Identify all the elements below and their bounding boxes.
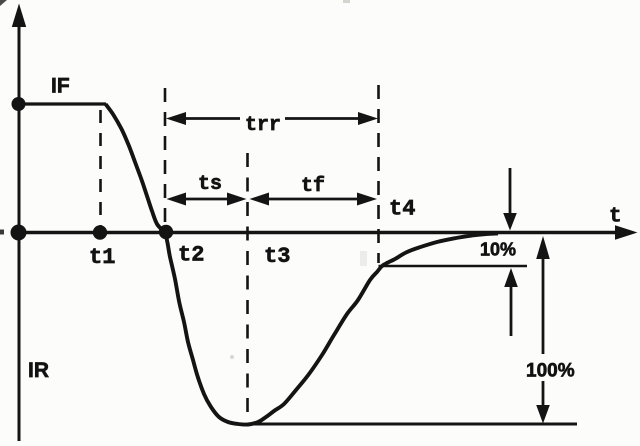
svg-text:IR: IR [28,359,49,382]
svg-text:t3: t3 [264,244,290,269]
svg-text:10%: 10% [480,240,516,260]
svg-text:t: t [609,206,622,229]
svg-text:100%: 100% [526,361,575,382]
svg-text:t4: t4 [389,197,415,222]
svg-text:t1: t1 [89,245,115,270]
svg-text:t2: t2 [178,243,204,268]
svg-text:IF: IF [51,75,70,98]
svg-text:ts: ts [198,173,222,196]
svg-text:tf: tf [301,175,325,198]
svg-text:trr: trr [245,114,281,137]
